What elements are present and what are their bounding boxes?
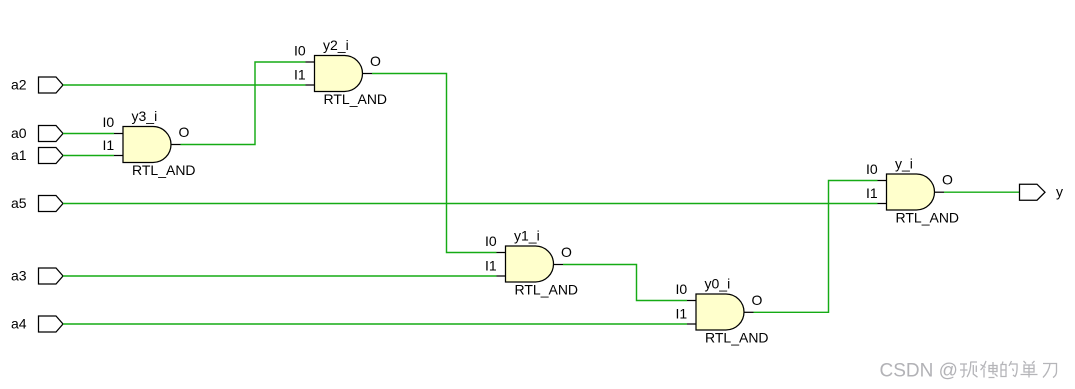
pin stub I1 of y3_i	[114, 155, 123, 157]
pin stub I0 of y3_i	[114, 133, 123, 135]
watermark hanzi 的	[1001, 361, 1017, 377]
watermark hanzi 单	[1021, 361, 1038, 378]
pin stub I0 of y2_i	[306, 61, 315, 63]
svg-text:a0: a0	[11, 125, 27, 141]
and-gate y2_i (RTL_AND)	[294, 37, 387, 107]
wire net y1_i.O -> y0_i.I0	[563, 265, 687, 301]
svg-text:a5: a5	[11, 195, 27, 211]
svg-text:O: O	[561, 244, 572, 260]
svg-text:RTL_AND: RTL_AND	[515, 281, 579, 297]
svg-text:I1: I1	[866, 185, 878, 201]
pin stub I1 of y0_i	[687, 323, 696, 325]
svg-text:CSDN @: CSDN @	[880, 361, 958, 382]
watermark hanzi 独	[981, 361, 998, 378]
AND gate body y2_i	[315, 56, 363, 92]
and-gate y1_i (RTL_AND)	[485, 228, 578, 298]
svg-text:I1: I1	[103, 137, 115, 153]
svg-text:I1: I1	[676, 306, 688, 322]
pin stub O of y3_i	[171, 144, 181, 146]
wire net a5 -> y_i.I1	[63, 203, 878, 205]
svg-text:a4: a4	[11, 316, 27, 332]
svg-text:y_i: y_i	[895, 156, 913, 172]
wire net y_i.O -> y	[944, 191, 1020, 193]
svg-text:I0: I0	[103, 114, 115, 130]
AND gate body y3_i	[123, 127, 171, 163]
wire net a4 -> y0_i.I1	[63, 323, 687, 325]
pin stub O of y_i	[935, 191, 945, 193]
wire net y0_i.O -> y_i.I0	[754, 181, 878, 313]
pin stub I1 of y_i	[878, 203, 887, 205]
svg-text:I1: I1	[294, 67, 306, 83]
pin stub O of y0_i	[744, 311, 754, 313]
input port a5	[11, 195, 63, 212]
svg-text:O: O	[942, 172, 953, 188]
output port y	[1020, 184, 1064, 201]
pin stub I0 of y_i	[878, 180, 887, 182]
and-gate y3_i (RTL_AND)	[103, 108, 196, 178]
wire net a1 -> y3_i.I1	[63, 155, 114, 157]
input port a1	[11, 147, 63, 164]
wire net a2 -> y2_i.I1	[63, 84, 306, 86]
svg-text:RTL_AND: RTL_AND	[324, 91, 388, 107]
input port a2	[11, 77, 63, 94]
pin stub I1 of y1_i	[497, 275, 506, 277]
wire net y2_i.O -> y1_i.I0	[372, 74, 497, 253]
svg-text:y1_i: y1_i	[514, 228, 540, 244]
svg-text:y: y	[1056, 184, 1063, 200]
svg-text:RTL_AND: RTL_AND	[132, 162, 196, 178]
svg-text:I0: I0	[294, 43, 306, 59]
and-gate y0_i (RTL_AND)	[676, 276, 769, 346]
input port a0	[11, 125, 63, 142]
svg-text:y2_i: y2_i	[323, 37, 349, 53]
pin stub I0 of y1_i	[497, 252, 506, 254]
svg-text:a3: a3	[11, 268, 27, 284]
input port a3	[11, 268, 63, 285]
svg-text:a1: a1	[11, 147, 27, 163]
svg-text:I0: I0	[485, 233, 497, 249]
wire net a0 -> y3_i.I0	[63, 133, 114, 135]
and-gate y_i (RTL_AND)	[866, 156, 959, 226]
input port a4	[11, 316, 63, 333]
svg-text:RTL_AND: RTL_AND	[705, 329, 769, 345]
wire net y3_i.O -> y2_i.I0	[181, 62, 306, 145]
watermark CSDN @孤独的单刀	[880, 361, 958, 382]
svg-text:O: O	[370, 53, 381, 69]
pin stub I0 of y0_i	[687, 300, 696, 302]
wire net a3 -> y1_i.I1	[63, 275, 497, 277]
svg-text:RTL_AND: RTL_AND	[896, 209, 960, 225]
watermark hanzi 刀	[1043, 364, 1057, 378]
svg-text:I1: I1	[485, 258, 497, 274]
svg-text:a2: a2	[11, 77, 27, 93]
AND gate body y0_i	[696, 294, 744, 330]
svg-text:y0_i: y0_i	[705, 276, 731, 292]
svg-text:I0: I0	[866, 161, 878, 177]
pin stub I1 of y2_i	[306, 84, 315, 86]
svg-text:O: O	[752, 292, 763, 308]
watermark hanzi 孤	[960, 362, 978, 377]
pin stub O of y2_i	[363, 73, 373, 75]
svg-text:I0: I0	[676, 281, 688, 297]
pin stub O of y1_i	[554, 264, 564, 266]
AND gate body y1_i	[506, 246, 554, 282]
AND gate body y_i	[887, 174, 935, 210]
svg-text:O: O	[179, 124, 190, 140]
svg-text:y3_i: y3_i	[132, 108, 158, 124]
